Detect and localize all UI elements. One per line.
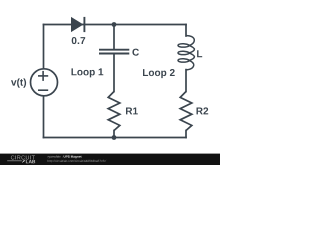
circuitlab logo	[7, 156, 35, 164]
wire middle to bottom	[113, 131, 115, 138]
label R1	[126, 108, 138, 115]
credit line 1	[48, 155, 63, 158]
watermark bar	[0, 154, 220, 165]
label L	[197, 50, 202, 57]
wire right rail middle	[185, 70, 187, 92]
labels	[11, 37, 208, 114]
label v(t)	[11, 78, 26, 87]
wire middle lower	[113, 54, 115, 92]
wire bottom	[44, 137, 187, 139]
diode D1	[71, 17, 84, 32]
wire right rail upper	[185, 25, 187, 37]
credit line 2	[48, 160, 107, 163]
node junction top	[112, 22, 117, 27]
wire middle upper	[113, 25, 115, 50]
wire right rail lower	[185, 131, 187, 138]
label C	[132, 49, 139, 56]
inductor L	[178, 36, 194, 70]
wire left rail lower	[43, 96, 45, 137]
label R2	[197, 107, 209, 114]
wire left rail upper	[43, 25, 45, 69]
wire top	[44, 24, 187, 26]
voltage source V1	[31, 69, 58, 96]
resistor R1	[108, 92, 120, 131]
label Loop 1	[72, 68, 104, 77]
resistor R2	[180, 92, 192, 131]
label 0.7	[72, 37, 86, 44]
capacitor C	[99, 50, 129, 54]
label Loop 2	[143, 69, 175, 78]
node junction bottom	[112, 135, 117, 140]
